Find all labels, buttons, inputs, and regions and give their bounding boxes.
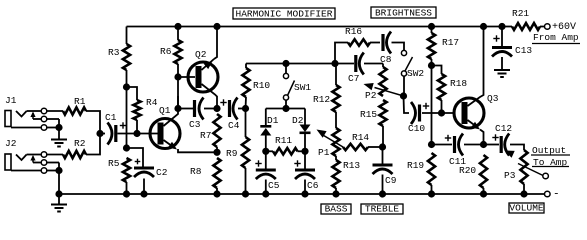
svg-text:From Amp: From Amp [533,32,579,43]
svg-text:J1: J1 [5,95,17,106]
svg-text:BRIGHTNESS: BRIGHTNESS [375,7,432,18]
svg-text:R11: R11 [275,135,292,146]
svg-text:R2: R2 [74,138,86,149]
svg-text:C12: C12 [495,123,512,134]
svg-text:C13: C13 [515,45,532,56]
svg-text:R9: R9 [226,148,238,159]
svg-text:C9: C9 [385,175,397,186]
svg-text:R19: R19 [407,160,424,171]
svg-text:R14: R14 [352,132,369,143]
svg-text:Q2: Q2 [195,49,207,60]
svg-text:C7: C7 [348,73,359,84]
svg-text:Q3: Q3 [487,93,499,104]
svg-text:J2: J2 [5,138,17,149]
svg-text:D2: D2 [292,115,304,126]
svg-text:R3: R3 [108,47,120,58]
svg-text:R12: R12 [313,94,330,105]
svg-text:HARMONIC MODIFIER: HARMONIC MODIFIER [236,8,333,19]
svg-text:R10: R10 [253,80,270,91]
svg-text:C2: C2 [156,167,168,178]
svg-text:-: - [553,189,560,201]
svg-text:P2: P2 [365,90,377,101]
svg-text:C10: C10 [408,123,425,134]
svg-text:R4: R4 [146,97,158,108]
svg-text:R18: R18 [450,78,467,89]
svg-text:R15: R15 [360,109,377,120]
svg-text:R17: R17 [442,37,459,48]
svg-text:R1: R1 [74,96,86,107]
svg-text:R7: R7 [200,130,211,141]
svg-text:R21: R21 [512,8,529,19]
svg-text:C1: C1 [105,112,117,123]
svg-text:P3: P3 [504,170,516,181]
svg-text:D1: D1 [267,115,279,126]
svg-text:R16: R16 [345,26,362,37]
svg-text:R6: R6 [160,46,172,57]
svg-text:VOLUME: VOLUME [509,202,544,213]
svg-text:C8: C8 [380,54,392,65]
svg-text:C6: C6 [307,180,319,191]
svg-text:R5: R5 [108,158,120,169]
svg-text:BASS: BASS [325,203,348,214]
svg-text:SW1: SW1 [294,82,311,93]
svg-text:P1: P1 [318,147,330,158]
svg-text:R13: R13 [343,160,360,171]
svg-text:TREBLE: TREBLE [365,203,400,214]
svg-text:C5: C5 [268,180,280,191]
svg-text:SW2: SW2 [407,68,424,79]
svg-text:C3: C3 [189,119,201,130]
svg-text:R8: R8 [190,166,202,177]
svg-text:C4: C4 [228,120,240,131]
svg-text:Q1: Q1 [159,105,171,116]
svg-text:C11: C11 [449,156,466,167]
